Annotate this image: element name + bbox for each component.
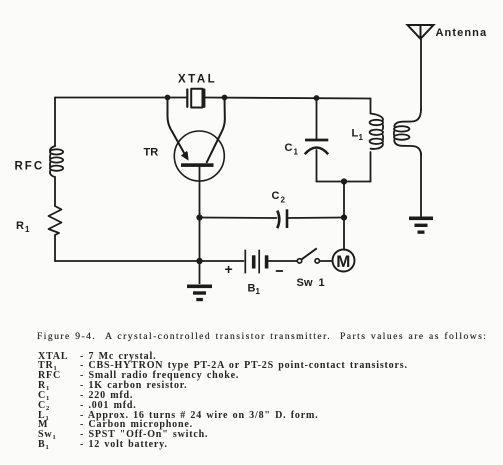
resistor R1 zigzag — [49, 206, 62, 235]
svg-text:TR: TR — [144, 147, 159, 159]
capacitor C1 — [305, 140, 329, 154]
svg-text:2: 2 — [281, 196, 286, 205]
svg-text:L: L — [352, 128, 359, 140]
svg-text:C: C — [272, 190, 280, 202]
figure caption — [37, 331, 487, 342]
svg-text:R: R — [16, 220, 24, 232]
label L1 — [352, 128, 364, 143]
transistor TR left whisker wire — [168, 98, 185, 155]
capacitor C2 — [277, 209, 287, 228]
label C1 — [285, 142, 299, 157]
label battery plus — [225, 261, 233, 277]
junction node C2 left — [196, 214, 202, 220]
wire C1 leg — [316, 98, 318, 182]
junction node tank bottom — [341, 178, 347, 184]
junction node emitter ground — [196, 258, 202, 264]
label M microphone — [336, 252, 350, 271]
svg-text:B: B — [248, 283, 256, 295]
wire tank bottom node down — [343, 182, 345, 218]
label RFC — [15, 161, 45, 173]
RFC choke coil — [50, 146, 63, 177]
crystal XTAL right plate — [203, 90, 205, 107]
battery minus sign — [276, 270, 283, 272]
svg-text:Antenna: Antenna — [436, 27, 488, 39]
junction node XTAL right — [222, 95, 228, 101]
crystal XTAL box — [191, 89, 202, 108]
ground antenna bars — [409, 217, 433, 234]
svg-text:1: 1 — [319, 277, 325, 289]
wire switch to microphone — [320, 260, 333, 262]
svg-text:M: M — [336, 252, 350, 271]
crystal XTAL left plate — [186, 90, 188, 107]
switch Sw1 — [297, 248, 319, 263]
transistor TR base bar — [181, 163, 214, 167]
label Antenna — [436, 27, 488, 39]
battery B1 — [245, 250, 266, 274]
wire left leg — [54, 98, 56, 262]
wire antenna down lead — [420, 39, 422, 217]
svg-text:1: 1 — [294, 148, 299, 157]
svg-text:1: 1 — [25, 225, 30, 234]
label R1 — [16, 220, 30, 234]
antenna symbol — [408, 25, 434, 39]
inductor L1 primary coil — [370, 114, 384, 149]
wire C2 horizontal — [200, 217, 345, 220]
transistor TR right whisker wire — [207, 98, 225, 163]
wire tank bottom — [317, 181, 371, 183]
junction node XTAL left — [165, 95, 171, 101]
transistor TR circle — [174, 131, 224, 181]
wire bottom bus — [55, 260, 244, 262]
label B1 — [248, 283, 261, 297]
label XTAL — [178, 74, 217, 86]
junction node C1 top — [314, 95, 320, 101]
svg-text:S: S — [297, 277, 304, 289]
svg-text:+: + — [225, 261, 233, 277]
parts list — [38, 352, 498, 450]
svg-text:1: 1 — [256, 287, 261, 296]
svg-text:1: 1 — [359, 133, 364, 142]
transistor TR emitter arrowhead — [181, 151, 189, 161]
junction node C2 right — [341, 214, 347, 220]
label C2 — [272, 190, 286, 205]
wire L1 leg — [370, 99, 372, 182]
label TR — [144, 147, 159, 159]
label Sw1 — [297, 277, 325, 289]
wire transistor base lead — [199, 167, 201, 261]
wire battery to switch — [269, 260, 297, 262]
inductor antenna secondary coil — [394, 109, 421, 155]
svg-text:XTAL: XTAL — [178, 74, 217, 86]
svg-text:C: C — [285, 142, 293, 154]
wire microphone to C2 node — [343, 218, 345, 250]
svg-text:RFC: RFC — [15, 161, 45, 173]
ground main bars — [187, 263, 212, 301]
wire top bus — [55, 98, 371, 99]
microphone M circle — [333, 250, 355, 272]
svg-text:w: w — [303, 277, 313, 289]
